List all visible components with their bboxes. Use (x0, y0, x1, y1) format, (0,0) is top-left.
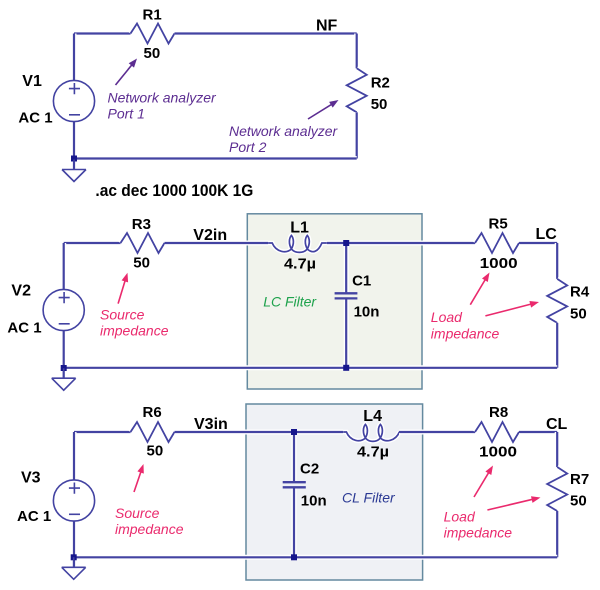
svg-text:R4: R4 (570, 284, 590, 301)
svg-text:NF: NF (316, 18, 338, 35)
resistor R1 (131, 24, 175, 44)
svg-text:50: 50 (371, 96, 388, 113)
voltage source V3 (53, 480, 94, 521)
svg-text:R5: R5 (489, 216, 508, 233)
svg-text:4.7µ: 4.7µ (284, 256, 316, 273)
wire R4 to bottom (555, 323, 560, 368)
svg-text:V3: V3 (21, 470, 41, 487)
arrow to R3 (118, 278, 126, 304)
svg-text:AC 1: AC 1 (18, 110, 52, 127)
svg-text:LC Filter: LC Filter (263, 294, 317, 310)
arrow to R8 (474, 470, 490, 497)
annotation source impedance (V2) (100, 307, 169, 339)
capacitor C2 (283, 482, 306, 487)
wire V2 top to R3 (64, 241, 121, 246)
svg-text:L4: L4 (363, 408, 382, 425)
wire L1 to R5 (327, 241, 475, 246)
wire NF down to R2 (354, 34, 359, 69)
wire V3 minus to ground (72, 521, 77, 567)
arrow to R6 (134, 469, 142, 492)
svg-text:Port 1: Port 1 (108, 106, 145, 122)
svg-text:impedance: impedance (431, 326, 500, 342)
resistor R7 (547, 467, 567, 511)
voltage source V1 (53, 80, 94, 121)
wire bottom return (74, 156, 357, 161)
svg-text:Network analyzer: Network analyzer (229, 123, 338, 139)
wire C1 bottom lead (344, 299, 349, 368)
svg-text:1000: 1000 (479, 443, 517, 460)
svg-text:impedance: impedance (115, 521, 184, 537)
resistor R8 (475, 422, 519, 442)
svg-text:.ac dec 1000 100K 1G: .ac dec 1000 100K 1G (95, 181, 253, 200)
wire V3 plus lead (72, 432, 77, 480)
wire LC down to R4 (555, 243, 560, 279)
svg-text:1000: 1000 (480, 255, 518, 272)
svg-text:AC 1: AC 1 (17, 508, 51, 525)
annotation source impedance (V3) (115, 505, 184, 537)
arrow to R5 (470, 277, 486, 305)
svg-text:R3: R3 (132, 216, 151, 233)
resistor R4 (547, 279, 567, 323)
svg-text:4.7µ: 4.7µ (357, 444, 389, 461)
capacitor C1 (335, 293, 358, 298)
svg-text:50: 50 (570, 306, 587, 323)
junction V1 ground node (71, 156, 77, 162)
annotation load impedance (middle) (431, 309, 500, 342)
wire R7 to bottom (555, 511, 560, 557)
resistor R2 (347, 68, 367, 112)
junction V2 ground node (61, 365, 67, 371)
wire V1 minus to ground (72, 122, 77, 170)
svg-text:V2in: V2in (193, 227, 227, 244)
arrow to R4 (485, 303, 533, 316)
voltage source V2 (43, 289, 84, 330)
svg-text:Network analyzer: Network analyzer (108, 90, 217, 106)
svg-text:CL Filter: CL Filter (342, 490, 396, 506)
wire bottom return (CL) (74, 555, 558, 560)
svg-text:C1: C1 (352, 272, 371, 289)
resistor R5 (475, 233, 519, 253)
wire V1 top to R1 (74, 31, 131, 36)
svg-text:Port 2: Port 2 (229, 139, 267, 155)
ground symbol top circuit (62, 160, 86, 182)
svg-text:V2: V2 (11, 282, 31, 299)
resistor R3 (121, 233, 165, 253)
svg-text:10n: 10n (301, 492, 327, 509)
svg-text:AC 1: AC 1 (7, 319, 41, 336)
svg-text:50: 50 (133, 255, 150, 272)
wire C2 node to L4 (294, 430, 343, 435)
wire CL down to R7 (555, 432, 560, 467)
svg-text:L1: L1 (290, 219, 309, 236)
svg-text:CL: CL (546, 416, 568, 433)
annotation network analyzer port 2 (229, 123, 338, 155)
wire R1 to NF corner (175, 31, 357, 36)
svg-text:Load: Load (431, 309, 463, 325)
wire R5 to LC corner (519, 241, 557, 246)
wire middle bottom return (64, 365, 558, 370)
wire C2 top lead (292, 432, 297, 482)
junction V3 ground node (71, 554, 77, 560)
svg-text:R6: R6 (143, 404, 162, 421)
svg-text:Load: Load (444, 509, 476, 525)
wire R3 to L1 (165, 241, 269, 246)
wire V1 plus lead (72, 34, 77, 81)
wire R8 to CL corner (519, 430, 557, 435)
CL filter box (246, 404, 423, 580)
svg-text:impedance: impedance (444, 525, 513, 541)
svg-text:Source: Source (115, 505, 160, 521)
svg-text:V3in: V3in (194, 416, 228, 433)
svg-text:50: 50 (144, 45, 161, 62)
svg-text:Source: Source (100, 307, 145, 323)
annotation network analyzer port 1 (108, 90, 217, 122)
svg-text:impedance: impedance (100, 323, 169, 339)
wire R2 to bottom (354, 112, 359, 158)
junction C2 top node (291, 429, 297, 435)
inductor L4 (343, 424, 399, 441)
svg-text:R8: R8 (489, 404, 508, 421)
svg-text:50: 50 (147, 443, 164, 460)
LC filter box (247, 214, 422, 389)
svg-text:C2: C2 (300, 461, 319, 478)
svg-text:R1: R1 (143, 7, 162, 24)
svg-text:LC: LC (536, 226, 558, 243)
junction L1/C1 node (343, 240, 349, 246)
svg-text:R7: R7 (570, 471, 589, 488)
wire V3 top to R6 (74, 430, 131, 435)
wire V2 plus lead (61, 243, 66, 289)
svg-text:R2: R2 (371, 75, 390, 92)
junction C1 bottom (343, 365, 349, 371)
wire C1 top lead (344, 243, 349, 292)
annotation load impedance (bottom) (444, 509, 513, 541)
ground symbol bottom circuit (62, 557, 86, 579)
inductor L1 (268, 235, 327, 252)
svg-text:V1: V1 (22, 73, 42, 90)
arrow to R1 (116, 63, 134, 85)
svg-text:10n: 10n (354, 304, 380, 321)
svg-text:50: 50 (570, 493, 587, 510)
wire L4 to R8 (399, 430, 475, 435)
arrow to R7 (487, 499, 535, 510)
wire C2 bottom lead (292, 488, 297, 557)
junction C2 bottom (291, 554, 297, 560)
arrow to R2 (308, 103, 334, 119)
wire R6 to C2 node (175, 430, 295, 435)
wire V2 minus to ground (61, 331, 66, 378)
resistor R6 (131, 422, 175, 442)
ground symbol middle circuit (52, 368, 76, 390)
